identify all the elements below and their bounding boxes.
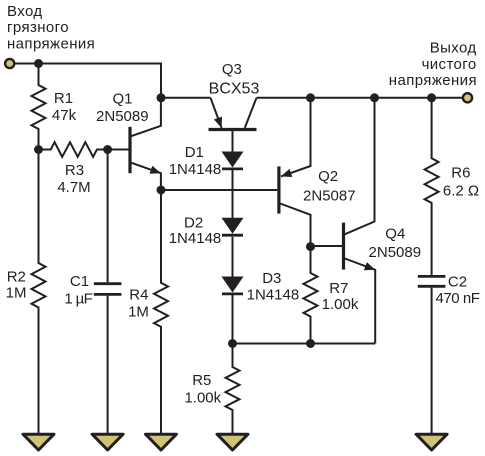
ground for C1 xyxy=(92,434,123,450)
wire Q3 base to D1 xyxy=(232,130,234,152)
svg-text:Вход: Вход xyxy=(7,3,43,20)
ground for R4 xyxy=(146,434,177,450)
svg-text:D3: D3 xyxy=(262,270,281,287)
ground for R2 xyxy=(23,434,54,450)
svg-text:Выход: Выход xyxy=(430,40,477,57)
transistor Q3 bar xyxy=(209,128,257,131)
wire Q4 base xyxy=(311,245,344,247)
svg-text:Q3: Q3 xyxy=(222,61,242,78)
svg-text:напряжения: напряжения xyxy=(7,36,95,53)
svg-text:1M: 1M xyxy=(6,285,27,302)
svg-text:1N4148: 1N4148 xyxy=(169,161,222,178)
node Q2 collector R7 Q4-base junction xyxy=(306,242,315,251)
svg-text:1M: 1M xyxy=(128,303,149,320)
wire C2 to ground xyxy=(431,288,433,434)
svg-text:D1: D1 xyxy=(185,144,204,161)
wire Q2 base xyxy=(161,189,277,191)
wire bottom link R5 to Q4 emitter xyxy=(233,343,376,345)
transistor Q1 bar xyxy=(128,127,131,173)
svg-text:47k: 47k xyxy=(52,107,77,124)
transistor Q2 collector xyxy=(279,203,311,247)
wire D3 to R5 node xyxy=(232,295,234,344)
resistor R1 47k xyxy=(32,64,46,150)
node R1 R2 R3 junction xyxy=(34,145,43,154)
ground for C2 xyxy=(416,434,447,450)
wire input to Q1 collector corner xyxy=(14,64,161,98)
svg-text:C2: C2 xyxy=(448,273,467,290)
svg-text:Q4: Q4 xyxy=(385,225,405,242)
svg-text:1 µF: 1 µF xyxy=(64,290,92,307)
svg-text:1N4148: 1N4148 xyxy=(169,230,222,247)
resistor R6 6.2ohm xyxy=(425,98,439,275)
transistor Q4 bar xyxy=(342,223,345,270)
wire Q1 base xyxy=(108,149,130,151)
input terminal IN xyxy=(5,59,14,68)
svg-text:чистого: чистого xyxy=(422,56,477,73)
wire top rail right of Q3 xyxy=(257,97,466,99)
transistor Q1 emitter arrow xyxy=(150,166,161,174)
diode D1 1N4148 xyxy=(222,152,244,168)
transistor Q3 collector xyxy=(245,98,257,128)
resistor R3 4.7M xyxy=(39,142,108,157)
svg-text:R6: R6 xyxy=(451,165,470,182)
transistor Q2 bar xyxy=(277,166,280,213)
svg-text:D2: D2 xyxy=(184,214,203,231)
node R7 bottom junction xyxy=(306,339,315,348)
node D3 R5 junction xyxy=(228,339,237,348)
capacitor C1 1uF xyxy=(94,282,122,285)
svg-text:2N5089: 2N5089 xyxy=(96,108,149,125)
svg-text:BCX53: BCX53 xyxy=(209,80,260,97)
svg-text:R4: R4 xyxy=(129,286,148,303)
svg-text:Q1: Q1 xyxy=(112,90,132,107)
node Q1 collector junction xyxy=(157,93,166,102)
svg-text:напряжения: напряжения xyxy=(389,72,477,89)
svg-text:2N5089: 2N5089 xyxy=(369,244,422,261)
diode D2 1N4148 xyxy=(222,218,244,234)
resistor R2 1M xyxy=(32,150,46,434)
svg-text:R7: R7 xyxy=(329,280,348,297)
wire D2 to D3 xyxy=(232,237,234,277)
transistor Q1 emitter xyxy=(130,162,161,190)
transistor Q4 emitter arrow xyxy=(364,262,375,270)
node top rail Q4 junction xyxy=(370,93,379,102)
transistor Q4 emitter xyxy=(344,258,376,344)
transistor Q3 emitter xyxy=(211,98,222,128)
svg-text:470 nF: 470 nF xyxy=(436,290,480,307)
wire C1 bottom lead xyxy=(107,296,109,434)
wire top rail left of Q3 xyxy=(161,97,211,99)
resistor R4 1M xyxy=(154,190,168,434)
svg-text:1.00k: 1.00k xyxy=(184,390,221,407)
transistor Q2 emitter lead xyxy=(281,98,311,177)
resistor R7 1.00k xyxy=(304,247,318,344)
wire D1 to D2 xyxy=(232,169,234,218)
svg-text:1N4148: 1N4148 xyxy=(247,287,300,304)
transistor Q4 collector xyxy=(344,98,375,235)
svg-text:R3: R3 xyxy=(65,162,84,179)
svg-text:Q2: Q2 xyxy=(318,168,338,185)
node input junction xyxy=(34,59,43,68)
svg-text:R2: R2 xyxy=(7,268,26,285)
wire C1 top lead xyxy=(107,150,109,283)
svg-text:грязного: грязного xyxy=(7,19,69,36)
transistor Q2 emitter arrow xyxy=(281,169,292,177)
svg-text:2N5087: 2N5087 xyxy=(303,187,356,204)
svg-text:4.7M: 4.7M xyxy=(57,179,90,196)
node Q1 emitter junction xyxy=(157,186,166,195)
node R3 C1 Q1-base junction xyxy=(103,145,112,154)
transistor Q1 collector xyxy=(130,98,161,137)
node top rail Q2 junction xyxy=(306,93,315,102)
node top rail R6 junction xyxy=(427,93,436,102)
ground for R5 xyxy=(217,434,248,450)
capacitor C2 470nF xyxy=(418,275,446,278)
svg-text:R5: R5 xyxy=(192,372,211,389)
transistor Q3 emitter arrow xyxy=(214,117,222,128)
svg-text:6.2 Ω: 6.2 Ω xyxy=(443,182,479,199)
svg-text:C1: C1 xyxy=(70,273,89,290)
svg-text:R1: R1 xyxy=(54,90,73,107)
resistor R5 1.00k xyxy=(226,344,240,434)
diode D3 1N4148 xyxy=(222,277,244,293)
svg-text:1.00k: 1.00k xyxy=(322,296,359,313)
output terminal OUT xyxy=(463,93,472,102)
